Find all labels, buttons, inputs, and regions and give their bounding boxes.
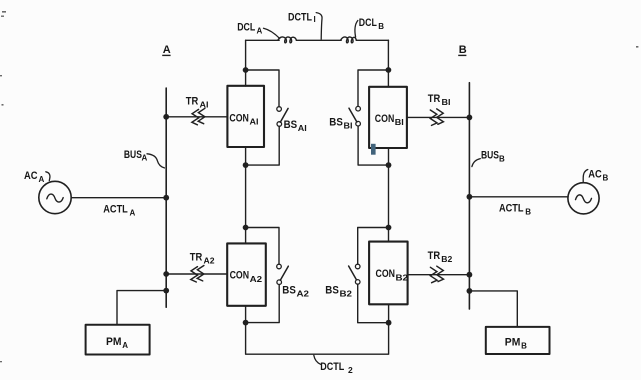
- box PMA: [86, 325, 150, 355]
- svg-text:A: A: [130, 209, 136, 218]
- leader BUSB: [472, 159, 480, 167]
- box PMB: [486, 327, 550, 354]
- node busB TRB2: [467, 272, 473, 278]
- wire PMA link: [117, 291, 166, 325]
- svg-text:B: B: [521, 341, 527, 350]
- wire CONA2 bottom: [245, 306, 247, 323]
- node busA PMA: [163, 288, 169, 294]
- converter CONB1 box: [369, 87, 407, 148]
- svg-text:A: A: [122, 341, 128, 350]
- switch BSB2: [349, 264, 360, 284]
- svg-text:TR: TR: [186, 95, 199, 107]
- transformer TRB1: [430, 109, 443, 126]
- converter CONB2 box: [369, 242, 408, 305]
- svg-text:A: A: [257, 27, 263, 36]
- node bottom A junction: [243, 320, 249, 326]
- node top A junction: [243, 67, 249, 73]
- svg-text:PM: PM: [505, 336, 521, 348]
- svg-text:A: A: [142, 154, 148, 163]
- svg-text:TR: TR: [428, 250, 441, 262]
- svg-text:B2: B2: [441, 255, 453, 264]
- transformer TRA2: [191, 266, 204, 283]
- svg-text:AI: AI: [200, 100, 209, 109]
- wire into CONB2 top: [388, 228, 390, 242]
- svg-text:BUS: BUS: [124, 149, 142, 161]
- wire BSA1 branch bottom: [246, 126, 280, 165]
- wire BUSA: [165, 88, 167, 307]
- wire TRA1 link: [166, 116, 227, 118]
- node bottom B junction: [386, 320, 392, 326]
- switch BSA2: [277, 264, 289, 284]
- svg-text:B: B: [603, 173, 609, 182]
- svg-text:ACTL: ACTL: [103, 204, 128, 216]
- leader ACA: [46, 172, 50, 181]
- inductor DCLA: [278, 37, 297, 43]
- wire B mid section: [388, 165, 390, 227]
- wire CONA1 to mid node: [245, 147, 247, 165]
- node top B junction: [386, 67, 392, 73]
- wire left DC riser: [245, 40, 247, 86]
- svg-text:A2: A2: [250, 275, 263, 284]
- node busA TRA2: [163, 271, 169, 277]
- switch BSB1: [349, 106, 360, 126]
- svg-text:BS: BS: [325, 285, 339, 297]
- svg-text:BS: BS: [282, 285, 296, 297]
- node mid A2 junction: [243, 225, 249, 231]
- svg-text:DCL: DCL: [237, 22, 255, 34]
- svg-text:CON: CON: [230, 270, 250, 282]
- wire TRB1 link: [407, 116, 469, 118]
- wire ACTLA: [71, 197, 166, 199]
- svg-text:BS: BS: [329, 116, 343, 128]
- svg-text:CON: CON: [375, 113, 395, 125]
- switch BSA1: [277, 107, 288, 127]
- node mid A1 junction: [243, 162, 249, 168]
- wire BSA2 branch top: [246, 228, 279, 265]
- wire ACTLB: [469, 196, 568, 198]
- source ACB: [568, 183, 599, 214]
- svg-text:ACTL: ACTL: [499, 202, 524, 214]
- svg-text:B: B: [459, 44, 467, 56]
- svg-text:BI: BI: [442, 98, 451, 107]
- wire DCTL2 bottom tie line: [246, 323, 389, 355]
- svg-text:BS: BS: [284, 119, 298, 131]
- transformer TRA1: [192, 108, 205, 125]
- wire into CONA2 top: [245, 228, 247, 244]
- svg-text:TR: TR: [190, 251, 203, 263]
- wire TRA2 link: [166, 273, 227, 275]
- svg-text:TR: TR: [428, 93, 441, 105]
- svg-text:A2: A2: [297, 290, 310, 299]
- wire BSB1 branch bottom: [358, 126, 388, 165]
- source ACA: [39, 181, 71, 213]
- node mid B1 junction: [386, 162, 392, 168]
- converter CONA1 box: [227, 86, 264, 147]
- svg-text:A: A: [39, 175, 45, 184]
- wire TRB2 link: [408, 274, 470, 276]
- leader DCLA: [264, 28, 280, 38]
- artifact blue mark: [371, 144, 376, 155]
- leader DCTL1: [316, 13, 322, 40]
- svg-text:B2: B2: [396, 273, 409, 282]
- wire BSB2 branch top: [358, 228, 389, 265]
- label A: [162, 44, 171, 56]
- wire A mid section: [245, 165, 247, 227]
- svg-text:PM: PM: [106, 336, 122, 348]
- wire BSA1 branch top: [246, 70, 279, 107]
- svg-text:DCTL: DCTL: [320, 361, 344, 373]
- wire BSB1 branch top: [358, 70, 388, 106]
- node mid B2 junction: [386, 225, 392, 231]
- svg-text:I: I: [314, 15, 316, 24]
- svg-text:BI: BI: [395, 118, 404, 127]
- wire BUSB: [468, 83, 470, 309]
- svg-text:AI: AI: [298, 124, 307, 133]
- svg-text:A2: A2: [204, 256, 216, 265]
- svg-text:A: A: [163, 44, 171, 56]
- wire CONB2 bottom: [388, 304, 390, 322]
- inductor DCLB: [341, 37, 357, 43]
- wire PMB link: [469, 291, 517, 327]
- leader DCLB: [355, 21, 358, 38]
- svg-text:BI: BI: [344, 122, 353, 131]
- node busA ACTLA: [163, 195, 169, 201]
- leader ACB: [583, 170, 588, 183]
- svg-text:DCTL: DCTL: [288, 12, 312, 24]
- wire CONB1 to mid node: [388, 148, 390, 165]
- label B: [458, 44, 467, 56]
- svg-text:DCL: DCL: [359, 17, 377, 29]
- wire DCTL1 top tie line: [246, 39, 389, 41]
- wire right DC riser: [387, 40, 389, 87]
- svg-text:CON: CON: [229, 113, 249, 125]
- node busB TRB1: [467, 115, 473, 121]
- transformer TRB2: [430, 266, 443, 283]
- wire BSB2 branch bottom: [358, 284, 389, 322]
- svg-text:AC: AC: [588, 168, 602, 180]
- svg-text:2: 2: [348, 365, 353, 375]
- svg-text:B2: B2: [340, 290, 353, 299]
- svg-text:B: B: [525, 207, 531, 216]
- svg-text:B: B: [499, 154, 505, 163]
- leader DCTL2: [314, 355, 321, 364]
- node busB ACTLB: [467, 194, 473, 200]
- svg-text:AC: AC: [24, 170, 38, 182]
- svg-text:BUS: BUS: [481, 150, 499, 162]
- node busB PMB: [467, 288, 473, 294]
- svg-text:CON: CON: [376, 268, 396, 280]
- svg-text:B: B: [378, 22, 384, 31]
- node busA TRA1: [163, 114, 169, 120]
- svg-text:AI: AI: [250, 118, 259, 127]
- converter CONA2 box: [227, 243, 266, 305]
- leader BUSA: [147, 154, 164, 168]
- wire BSA2 branch bottom: [246, 285, 280, 323]
